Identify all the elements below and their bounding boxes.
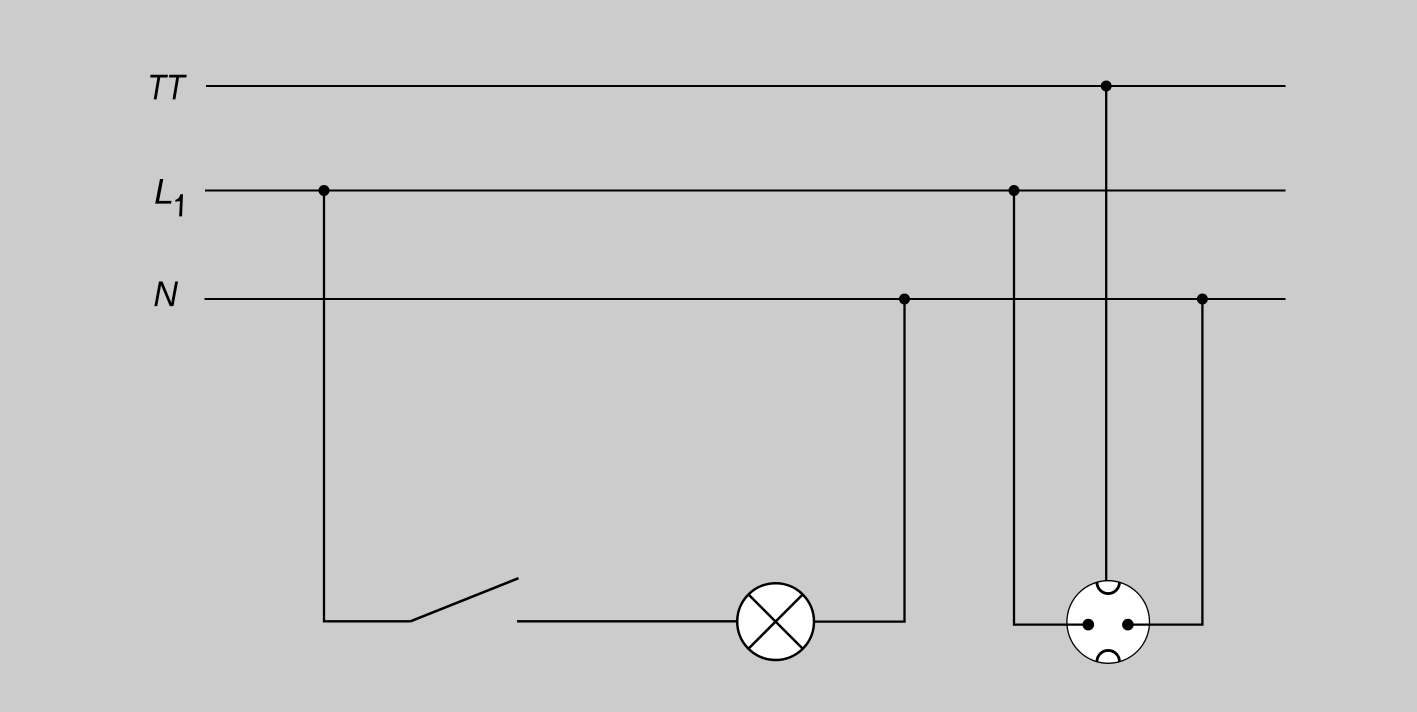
wire: N bus line (205, 298, 1286, 300)
wire: TT bus line (206, 85, 1286, 87)
net label N (154, 282, 178, 307)
switch S1 blade (411, 578, 519, 621)
wire: L1 drop to socket left pin (1014, 191, 1085, 625)
lamp E1 cross (748, 594, 802, 648)
wire: switch to lamp (517, 620, 737, 622)
junction: L1 / socket (1009, 185, 1020, 196)
socket outlet X1 body (1067, 581, 1150, 664)
junction: N / socket (1197, 294, 1208, 305)
socket X1 right pin wire (1128, 623, 1150, 625)
lamp E1 circle (737, 583, 814, 660)
wire: lamp to N (814, 299, 905, 622)
wire: TT drop to socket earth (1105, 86, 1107, 581)
net label L1 (155, 179, 183, 216)
socket X1 left pin (1083, 619, 1095, 631)
socket X1 bottom earth notch (1097, 650, 1120, 661)
junction: N / lamp (899, 294, 910, 305)
socket X1 right pin (1122, 619, 1134, 631)
wire: L1 drop to switch (324, 191, 411, 622)
socket X1 top earth notch (1097, 582, 1120, 593)
junction: TT / socket earth (1101, 81, 1112, 92)
junction: L1 / switch (319, 185, 330, 196)
socket X1 left pin wire (1067, 623, 1088, 625)
net label TT (150, 75, 187, 100)
wire: N drop to socket right pin (1131, 299, 1202, 625)
wire: L1 bus line (205, 189, 1286, 191)
